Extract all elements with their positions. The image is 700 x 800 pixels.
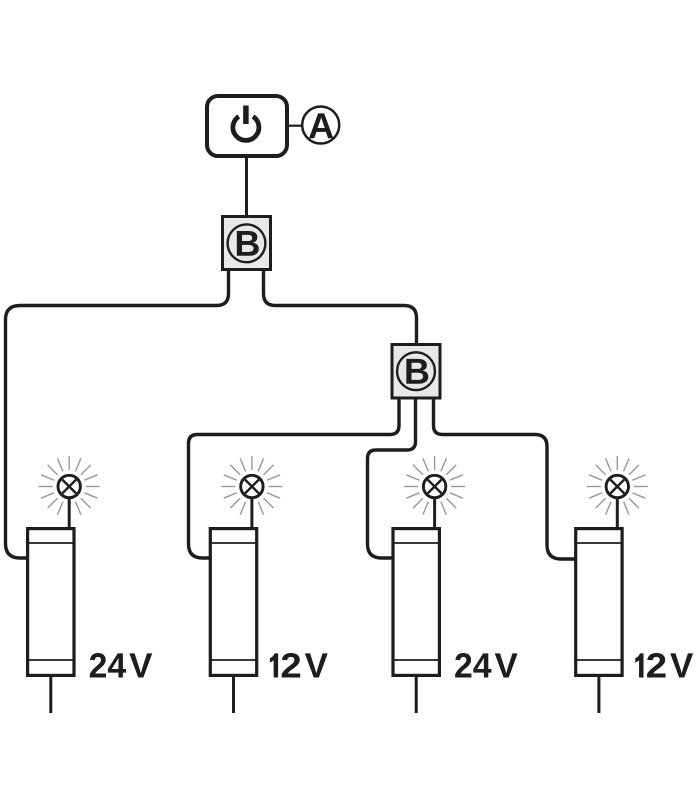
wire [264,271,417,343]
node A [302,107,339,144]
wire [597,677,600,713]
lamp E3 [404,456,465,527]
value label 24 V (lamp 1) [90,653,152,677]
luminaire body L2 [210,529,256,676]
wire [434,400,576,560]
wire [232,677,235,713]
power icon [233,106,259,141]
wire [6,271,229,558]
luminaire body L4 [576,529,622,676]
switch box S1 [207,96,287,156]
wire [189,400,400,559]
lamp E4 [587,456,648,527]
lamp E2 [221,456,282,527]
value label 12 V (lamp 2) [270,653,328,677]
wire [415,677,418,713]
wire [368,400,416,559]
wire [245,158,248,215]
distributor B2 [392,345,440,399]
luminaire body L1 [28,529,74,676]
distributor B1 [223,217,271,270]
value label 12 V (lamp 4) [635,653,693,677]
wire [49,677,52,713]
wire [288,125,302,127]
lamp E1 [39,456,100,527]
luminaire body L3 [393,529,439,676]
value label 24 V (lamp 3) [455,653,517,677]
